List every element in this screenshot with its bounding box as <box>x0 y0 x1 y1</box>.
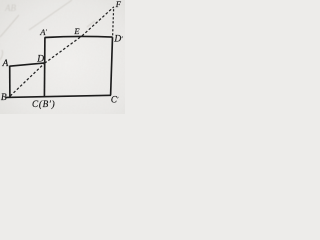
wire: small square left side AB <box>9 66 11 97</box>
svg-text:E: E <box>73 26 80 36</box>
wire: dashed diagonal B to D <box>10 63 44 96</box>
svg-text:F: F <box>115 0 122 9</box>
svg-text:B: B <box>1 93 7 103</box>
wire: large square right side D'C' <box>111 37 113 95</box>
svg-text:AB: AB <box>4 3 16 13</box>
wire: small square top side AD <box>9 63 45 66</box>
wire: dashed diagonal D to E <box>45 36 82 63</box>
svg-text:A: A <box>2 59 9 69</box>
faint bleed-through marks <box>0 0 95 60</box>
scan grain <box>0 0 125 114</box>
svg-text:D: D <box>36 55 44 65</box>
wire: shared vertical side DC / A'B' <box>43 37 46 96</box>
wire: dashed vertical F to D' <box>113 9 114 36</box>
svg-text:C(B′): C(B′) <box>32 99 55 109</box>
wire: long bottom line B - C(B') - C' <box>6 95 111 97</box>
wire: large square top side A'D' <box>45 36 113 37</box>
paper background <box>0 0 125 114</box>
svg-text:C′: C′ <box>111 95 119 105</box>
wire: dashed diagonal E to F <box>82 7 114 36</box>
